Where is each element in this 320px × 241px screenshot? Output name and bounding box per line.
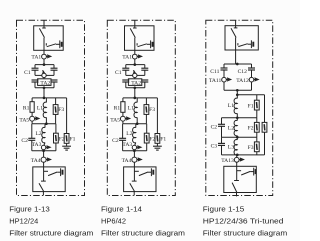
svg-text:F3: F3 (58, 107, 64, 113)
label TA11 fig3 (209, 78, 222, 84)
wire through fig1-QS1 box (43, 38, 45, 51)
wire L1 fig1 (45, 98, 47, 124)
CT TA1 fig1 (42, 54, 51, 59)
capacitor bank bottom bar fig2 (126, 87, 145, 89)
wire F3 fig2 (145, 98, 147, 124)
disconnector blade fig1-QS1 (39, 28, 44, 37)
arrester F3 fig2 (144, 105, 149, 115)
contact tick fig2-QS1 (133, 27, 137, 29)
svg-text:HP12/24/36 Tri-tuned: HP12/24/36 Tri-tuned (203, 216, 284, 225)
earthing electrode fig1-QS1 (60, 40, 62, 48)
svg-text:TA11: TA11 (209, 78, 222, 84)
branch stubs lower fig2 (126, 82, 145, 88)
wire L1 fig3 (236, 95, 238, 118)
svg-text:Figure 1-13: Figure 1-13 (9, 204, 50, 213)
CT TA2 fig1 (42, 70, 46, 77)
earthing electrode fig3-QS1 (251, 40, 253, 48)
svg-text:F3: F3 (149, 107, 155, 113)
wire L3 fig3 (236, 137, 238, 155)
earthing electrode fig2-QS1 (151, 40, 153, 48)
earthing blade fig1-QS1 (47, 44, 60, 47)
capacitor bank top bar fig1 (35, 64, 54, 66)
wire L2 fig3 (236, 118, 238, 137)
svg-text:F1: F1 (160, 137, 166, 143)
svg-text:TA4: TA4 (31, 158, 41, 164)
wire TA13 to bottom switch fig3 (236, 162, 238, 166)
capacitor C11 fig3 (221, 68, 228, 70)
branch stubs C1 fig1 (35, 65, 54, 69)
wire L2 fig2 (135, 124, 136, 146)
label C2 fig3 (211, 125, 218, 131)
wire from border to switch fig2 (134, 20, 136, 26)
label TA2 fig1 (40, 80, 50, 86)
wire to TA4 fig1 (43, 151, 45, 157)
svg-text:TA3: TA3 (32, 142, 42, 148)
wire cap bank to L1 node fig1 (43, 88, 45, 98)
wire C11 to TA11 fig3 (223, 70, 225, 77)
earthing electrode fig1-QS2 (61, 168, 63, 176)
svg-text:C2: C2 (211, 125, 218, 131)
svg-text:R1: R1 (114, 105, 121, 111)
label TA3 fig1 (32, 142, 42, 148)
CT TA4 fig2 (132, 157, 142, 162)
contact tick fig2-QS2 (132, 180, 137, 182)
wire F1 fig3 (256, 95, 258, 118)
inductor L1 fig3 (234, 98, 237, 114)
wire through fig3-QS1 box (235, 38, 237, 51)
disconnector switch box fig3-QS2 (224, 166, 256, 192)
label L1 fig2 (128, 105, 134, 111)
disconnector switch box fig1-QS1 (34, 26, 64, 51)
caption text: Figure 1-13 (9, 204, 50, 213)
wire F3 fig1 (55, 98, 57, 124)
svg-text:Figure 1-14: Figure 1-14 (101, 204, 142, 213)
label L3 fig3 (228, 144, 234, 150)
label L1 fig1 (37, 105, 43, 111)
contact tick fig1-QS1 (42, 27, 46, 29)
disconnector blade fig2-QS2 (130, 183, 135, 191)
label TA1 fig1 (31, 55, 41, 61)
inductor L1 fig2 (134, 102, 137, 118)
earthing contact tick fig2-QS1 (136, 43, 138, 45)
wire out of fig3-QS2 box (236, 193, 238, 197)
caption text: HP6/42 (101, 216, 126, 225)
svg-text:HP6/42: HP6/42 (101, 216, 126, 225)
wire TA4 to bottom switch fig1 (43, 162, 45, 167)
svg-text:C2: C2 (21, 138, 28, 144)
wire to TA4 fig2 (133, 151, 135, 157)
svg-text:TA3: TA3 (122, 142, 132, 148)
wire F2 fig2 (146, 124, 148, 151)
svg-text:C2: C2 (112, 138, 119, 144)
label F1 fig3 (248, 103, 254, 109)
CT TA1 fig2 (132, 54, 141, 59)
node bar C fig1 (32, 150, 56, 152)
CT TA5 fig2 (120, 116, 129, 121)
wire C2 branch fig1 (31, 124, 33, 151)
svg-text:L1: L1 (128, 105, 134, 111)
label C12 fig3 (238, 69, 248, 75)
svg-text:L2: L2 (228, 125, 234, 131)
wire through fig1-QS2 box (43, 167, 45, 181)
svg-text:TA13: TA13 (221, 158, 234, 164)
label TA5 fig2 (110, 118, 120, 124)
label F2 fig2 (149, 137, 155, 143)
CT TA3 fig2 (132, 145, 141, 149)
wire TA3 fig1 (43, 150, 45, 151)
capacitor C2 fig2 (119, 138, 126, 140)
label TA2 fig2 (131, 80, 141, 86)
wire out of fig2-QS2 box (133, 192, 135, 196)
svg-text:Filter structure diagram: Filter structure diagram (9, 229, 93, 238)
wire cap bank to L1 node fig2 (134, 88, 136, 98)
resistor R1 fig1 (30, 102, 34, 113)
svg-text:L2: L2 (35, 131, 41, 137)
node bar3 fig3 (222, 136, 257, 138)
label TA4 fig1 (31, 158, 41, 164)
wire into fig1-QS1 box (43, 26, 45, 28)
capacitor C2 fig3 (218, 124, 225, 126)
earthing contact tick fig1-QS1 (45, 43, 47, 45)
contact tick fig3-QS2 (234, 180, 239, 182)
label L1 fig3 (228, 103, 234, 109)
disconnector blade fig1-QS2 (39, 183, 44, 191)
contact tick fig1-QS2 (41, 180, 46, 182)
ground below F1 fig1 (62, 146, 71, 150)
earthing blade fig1-QS2 (48, 172, 60, 176)
wire through fig3-QS2 box (236, 166, 238, 180)
CT TA12 fig3 (249, 77, 258, 82)
node bar B fig1 (32, 123, 56, 125)
svg-text:Filter structure diagram: Filter structure diagram (203, 229, 287, 238)
label TA13 fig3 (221, 158, 234, 164)
node bar1 fig3 (237, 94, 264, 96)
caption text: Figure 1-14 (101, 204, 142, 213)
label F1 fig1 (70, 137, 76, 143)
wire F2 fig1 (55, 124, 57, 151)
label C11 fig3 (210, 69, 219, 75)
bridge wire fig2 (126, 70, 145, 75)
svg-text:TA2: TA2 (131, 80, 141, 86)
arrester F3 fig1 (53, 105, 58, 115)
node bar2 fig3 (222, 117, 257, 119)
label F3 fig2 (149, 107, 155, 113)
wire TA5 to node bar B fig2 (122, 121, 124, 124)
resistor R1 fig2 (121, 102, 125, 113)
label TA5 fig1 (19, 118, 29, 124)
caption text: Figure 1-15 (203, 204, 245, 213)
wire C12 to TA12 fig3 (251, 70, 253, 77)
dash-dot enclosure border fig3 (206, 20, 273, 195)
wire C3 fig3 (221, 137, 223, 155)
label TA3 fig2 (122, 142, 132, 148)
earthing contact tick fig3-QS1 (237, 43, 239, 45)
svg-text:F2: F2 (248, 126, 254, 132)
ground below F1 fig2 (153, 146, 162, 150)
svg-text:HP12/24: HP12/24 (9, 216, 38, 225)
label C1 fig1 (24, 70, 31, 76)
CT TA13 fig3 (234, 157, 243, 162)
disconnector switch box fig1-QS2 (33, 167, 65, 192)
wire F3 fig3 (256, 137, 258, 155)
svg-text:C1: C1 (115, 70, 122, 76)
wire from border to switch fig1 (43, 20, 45, 26)
caption text: HP12/24/36 Tri-tuned (203, 216, 284, 225)
CT TA3 fig1 (41, 145, 50, 149)
earthing blade fig3-QS2 (241, 171, 253, 175)
svg-text:R1: R1 (23, 105, 30, 111)
arrester F1 fig2 (155, 134, 160, 144)
svg-text:TA1: TA1 (31, 55, 41, 61)
TA2 box fig2 (128, 79, 141, 86)
wire F2 fig3 (256, 118, 258, 137)
wire L1 fig2 (136, 98, 138, 124)
svg-text:TA2: TA2 (40, 80, 50, 86)
capacitor C3 fig3 (218, 143, 225, 145)
svg-text:L1: L1 (228, 103, 234, 109)
earthing contact tick fig1-QS2 (44, 170, 48, 172)
svg-text:C3: C3 (211, 144, 218, 150)
stubs to bottom bar fig3 (224, 82, 252, 90)
node bar B fig2 (123, 123, 146, 125)
capacitor bank bottom bar fig3 (224, 89, 252, 91)
wire F1 fig1 (66, 98, 68, 146)
label F2 fig1 (59, 137, 65, 143)
label TA12 fig3 (236, 78, 249, 84)
caption text: Filter structure diagram (9, 229, 93, 238)
svg-text:F1: F1 (70, 137, 76, 143)
earthing blade fig3-QS1 (238, 44, 251, 47)
wire outer arrester fig3 (264, 95, 266, 155)
label TA4 fig2 (122, 158, 132, 164)
wire through fig2-QS1 box (134, 38, 136, 51)
arrester F1 fig3 (254, 100, 259, 110)
CT TA4 fig1 (41, 157, 51, 162)
caption text: Filter structure diagram (203, 229, 287, 238)
wire out of fig1-QS2 box (42, 192, 44, 196)
CT TA2 fig2 (133, 70, 137, 77)
arrester F1 fig1 (64, 134, 69, 144)
label F1 fig2 (160, 137, 166, 143)
capacitor C1 right-top fig1 (51, 68, 58, 70)
svg-text:Figure 1-15: Figure 1-15 (203, 204, 245, 213)
inductor L2 fig3 (234, 120, 237, 136)
capacitor bank top bar fig2 (126, 64, 145, 66)
contact tick fig3-QS1 (234, 27, 238, 29)
dash-dot enclosure border fig1 (17, 20, 85, 195)
label L2 fig3 (228, 125, 234, 131)
wire switch to capacitor bank fig3 (235, 50, 237, 64)
capacitor C1 left-bottom fig2 (122, 80, 129, 82)
capacitor C1 right-bottom fig1 (51, 80, 58, 82)
label L2 fig1 (35, 131, 41, 137)
earthing electrode fig2-QS2 (151, 168, 153, 176)
label C2 fig2 (112, 138, 119, 144)
svg-text:TA5: TA5 (110, 118, 120, 124)
caption text: Filter structure diagram (101, 229, 185, 238)
svg-text:TA12: TA12 (236, 78, 249, 84)
disconnector blade fig3-QS2 (232, 183, 237, 193)
node bar A fig1 (32, 97, 67, 99)
wire cap bank to node bar1 fig3 (236, 90, 238, 95)
arrester FA outer fig3 (262, 122, 267, 132)
svg-text:L3: L3 (228, 144, 234, 150)
svg-text:TA1: TA1 (122, 55, 132, 61)
junction dots (43, 63, 238, 156)
svg-text:L2: L2 (126, 131, 132, 137)
wire R1 fig1 (31, 98, 33, 116)
label F2 fig3 (248, 126, 254, 132)
wire TA5 to node bar B fig1 (31, 121, 33, 124)
inductor L2 fig2 (133, 127, 136, 142)
branch stubs lower fig1 (35, 82, 54, 88)
capacitor C1 left-top fig2 (122, 68, 129, 70)
arrester F3 fig3 (254, 142, 259, 152)
wire C2 fig3 (221, 118, 223, 137)
wire through fig2-QS2 box (133, 167, 135, 181)
svg-text:C12: C12 (238, 69, 248, 75)
disconnector switch box fig2-QS2 (124, 167, 156, 192)
capacitor bank bottom bar fig1 (35, 87, 54, 89)
wire TA4 to bottom switch fig2 (133, 162, 135, 167)
svg-text:C1: C1 (24, 70, 31, 76)
earthing contact tick fig3-QS2 (237, 170, 241, 172)
wire TA1 to capacitor bank fig2 (134, 50, 136, 64)
svg-text:TA4: TA4 (122, 158, 132, 164)
arrester F2 fig1 (54, 133, 59, 143)
inductor L3 fig3 (234, 140, 237, 156)
label TA1 fig2 (122, 55, 132, 61)
arrester F2 fig2 (144, 133, 149, 143)
earthing contact tick fig2-QS2 (134, 170, 138, 172)
earthing electrode fig3-QS2 (254, 168, 256, 176)
label R1 fig1 (23, 105, 30, 111)
wire C2 branch fig2 (122, 124, 124, 151)
label C1 fig2 (115, 70, 122, 76)
label R1 fig2 (114, 105, 121, 111)
node bar A fig2 (123, 97, 157, 99)
svg-text:L1: L1 (37, 105, 43, 111)
wire into fig3-QS1 box (235, 26, 237, 28)
capacitor C1 right-bottom fig2 (141, 80, 148, 82)
disconnector blade fig2-QS1 (130, 28, 135, 37)
arrester F2 fig3 (254, 122, 259, 132)
earthing blade fig2-QS2 (139, 172, 151, 176)
wire R1 fig2 (122, 98, 124, 116)
capacitor C12 fig3 (248, 68, 255, 70)
wire from border to switch fig3 (235, 20, 237, 25)
wire into fig2-QS1 box (134, 26, 136, 28)
branch stubs fig3 (224, 64, 252, 68)
capacitor C2 fig1 (28, 138, 35, 140)
disconnector switch box fig2-QS1 (125, 26, 155, 51)
CT TA11 fig3 (222, 77, 231, 82)
capacitor bank top bar fig3 (224, 63, 252, 65)
capacitor C1 left-bottom fig1 (32, 80, 39, 82)
svg-text:Filter structure diagram: Filter structure diagram (101, 229, 185, 238)
label F3 fig3 (248, 145, 254, 151)
svg-text:TA5: TA5 (19, 118, 29, 124)
wire to TA13 fig3 (236, 155, 238, 158)
dash-dot enclosure border fig2 (107, 20, 175, 195)
disconnector blade fig3-QS1 (231, 28, 236, 37)
branch stubs C1 fig2 (126, 65, 145, 69)
wire TA2 fig2 (134, 78, 136, 79)
wire L2 fig1 (44, 124, 45, 146)
node bar C fig2 (123, 150, 147, 152)
label F3 fig1 (58, 107, 64, 113)
label C3 fig3 (211, 144, 218, 150)
inductor L1 fig1 (43, 102, 46, 118)
svg-text:C11: C11 (210, 69, 219, 75)
earthing blade fig2-QS1 (138, 44, 151, 47)
CT TA5 fig1 (30, 116, 39, 121)
label L2 fig2 (126, 131, 132, 137)
caption text: HP12/24 (9, 216, 38, 225)
capacitor C1 right-top fig2 (141, 68, 148, 70)
disconnector switch box fig3-QS1 (225, 26, 258, 50)
wire TA3 fig2 (133, 150, 135, 151)
svg-text:F3: F3 (248, 145, 254, 151)
label C2 fig1 (21, 138, 28, 144)
inductor L2 fig1 (42, 127, 45, 142)
wire TA1 to capacitor bank fig1 (43, 50, 45, 64)
bridge wire fig1 (35, 70, 54, 75)
svg-text:F1: F1 (248, 103, 254, 109)
TA2 box fig1 (38, 79, 51, 86)
wire TA2 fig1 (43, 78, 45, 79)
wire F1 fig2 (156, 98, 158, 146)
capacitor C1 left-top fig1 (32, 68, 39, 70)
node bar4 fig3 (222, 154, 265, 156)
